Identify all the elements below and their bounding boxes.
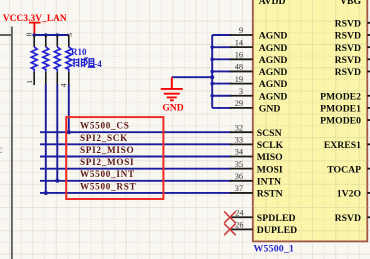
- svg-text:SPI2_MOSI: SPI2_MOSI: [80, 157, 134, 167]
- wire net SPI2_MOSI: [40, 168, 231, 170]
- pin 37 RSTN: [230, 184, 253, 193]
- svg-text:AVDD: AVDD: [259, 0, 286, 7]
- pin name RSVD (right side row): [335, 31, 370, 42]
- wire net W5500_RST: [40, 192, 231, 194]
- svg-text:PMODE1: PMODE1: [320, 104, 361, 115]
- svg-text:C: C: [0, 145, 3, 155]
- pin 34 MISO: [230, 148, 253, 157]
- ground symbol: [161, 77, 183, 100]
- svg-text:AGND: AGND: [259, 43, 288, 54]
- svg-text:AGND: AGND: [259, 31, 288, 42]
- svg-text:AGND: AGND: [259, 79, 288, 90]
- svg-text:8: 8: [25, 32, 34, 36]
- svg-text:37: 37: [235, 184, 243, 193]
- junction dots on bus: [210, 45, 214, 97]
- svg-text:RSVD: RSVD: [335, 31, 361, 42]
- pin 19 (AGND group): [230, 75, 253, 84]
- svg-text:34: 34: [235, 148, 244, 157]
- junction dot: [210, 75, 214, 79]
- wire net W5500_INT: [40, 180, 231, 182]
- svg-text:VCC3.3V_LAN: VCC3.3V_LAN: [3, 14, 67, 24]
- svg-text:9: 9: [239, 26, 243, 35]
- svg-text:48: 48: [235, 63, 243, 72]
- pin 29 (AGND group): [230, 99, 253, 108]
- pin 32 SCSN: [230, 123, 253, 132]
- svg-text:35: 35: [235, 160, 243, 169]
- resistor R10A (element 1 of pack R10): [31, 35, 37, 85]
- svg-text:SCLK: SCLK: [257, 140, 284, 151]
- resistor R10D (element 4 of pack R10): [66, 35, 72, 85]
- pin 16 (AGND group): [230, 51, 253, 60]
- pin name PMODE1 (right side row): [320, 104, 370, 115]
- svg-text:RSVD: RSVD: [335, 67, 361, 78]
- svg-text:RSTN: RSTN: [257, 189, 283, 200]
- svg-text:SCSN: SCSN: [257, 128, 282, 139]
- svg-text:14: 14: [235, 38, 244, 47]
- svg-text:GND: GND: [162, 102, 183, 113]
- wire bus to pin row 4: [212, 70, 231, 72]
- svg-text:DUPLED: DUPLED: [257, 225, 297, 236]
- pin 35 MOSI: [230, 160, 253, 169]
- highlight box (selection rectangle): [66, 117, 163, 199]
- no-connect X: [224, 224, 236, 236]
- svg-text:SPI2_SCK: SPI2_SCK: [80, 133, 128, 143]
- wire bus to pin row 6: [212, 95, 231, 97]
- svg-text:5: 5: [65, 33, 74, 37]
- junction dots on VCC rail: [32, 33, 59, 37]
- pin 3 (AGND group): [230, 87, 253, 96]
- svg-text:R10: R10: [71, 47, 87, 57]
- svg-text:EXRES1: EXRES1: [324, 140, 361, 151]
- wire net SPI2_MISO: [40, 156, 231, 158]
- wire GND to bus: [172, 76, 212, 78]
- pin name RSVD (right side row): [335, 213, 370, 224]
- svg-text:32: 32: [235, 123, 243, 132]
- wire bus to pin row 7: [212, 107, 231, 109]
- svg-text:AGND: AGND: [259, 55, 288, 66]
- svg-text:VBG: VBG: [340, 0, 361, 7]
- wire R10C down to W5500_INT: [56, 84, 58, 181]
- svg-text:AGND: AGND: [259, 67, 288, 78]
- wire R10D down to W5500_CS: [68, 84, 70, 132]
- pin 36 INTN: [230, 172, 253, 181]
- wire net SPI2_SCK: [40, 143, 231, 145]
- svg-text:W5500_1: W5500_1: [254, 244, 295, 255]
- pin name PMODE0 (right side row): [320, 116, 370, 127]
- svg-text:PMODE2: PMODE2: [320, 91, 361, 102]
- svg-text:MOSI: MOSI: [257, 164, 283, 175]
- resistor R10B (element 2 of pack R10): [43, 35, 49, 85]
- svg-text:TOCAP: TOCAP: [327, 164, 361, 175]
- svg-text:MISO: MISO: [257, 152, 283, 163]
- svg-text:29: 29: [235, 99, 243, 108]
- pin 48 (AGND group): [230, 63, 253, 72]
- svg-text:4: 4: [59, 83, 68, 87]
- svg-text:W5500_CS: W5500_CS: [80, 121, 130, 131]
- svg-text:-4: -4: [94, 59, 102, 69]
- IC W5500 body: [253, 0, 367, 241]
- svg-text:GND: GND: [259, 104, 281, 115]
- svg-text:1V2O: 1V2O: [337, 189, 362, 200]
- wire net W5500_CS: [40, 131, 231, 133]
- wire AGND bus vertical: [211, 35, 213, 108]
- no-connect X: [224, 211, 236, 223]
- pin 33 SCLK: [230, 136, 253, 145]
- svg-text:SPDLED: SPDLED: [257, 213, 296, 224]
- wire bus to pin row 5: [212, 83, 231, 85]
- wire bus to pin row 2: [212, 46, 231, 48]
- svg-text:26: 26: [235, 221, 243, 230]
- wire bus to pin row 1: [212, 34, 231, 36]
- svg-text:33: 33: [235, 136, 243, 145]
- wire VCC rail across resistor tops: [34, 34, 69, 36]
- svg-text:INTN: INTN: [257, 176, 281, 187]
- pin name EXRES1 (right side row): [324, 140, 370, 151]
- svg-text:RSVD: RSVD: [335, 213, 361, 224]
- svg-text:36: 36: [235, 172, 243, 181]
- resistor R10C (element 3 of pack R10): [54, 35, 60, 85]
- pin 26 (DUPLED) no-connect: [224, 221, 253, 236]
- svg-text:AGND: AGND: [259, 91, 288, 102]
- svg-text:16: 16: [235, 51, 243, 60]
- pin 9 (AGND group): [230, 26, 253, 35]
- pin name RSVD (right side row): [335, 67, 370, 78]
- svg-text:RSVD: RSVD: [335, 18, 361, 29]
- pin name RSVD (right side row): [335, 43, 370, 54]
- value 排阻-4 (resistor network) drawn as strokes: [73, 58, 96, 67]
- pin 24 (SPDLED) no-connect: [224, 208, 253, 223]
- pin name PMODE2 (right side row): [320, 91, 370, 102]
- svg-text:24: 24: [235, 208, 244, 217]
- wire (gray partial symbol at left edge): [0, 27, 12, 259]
- svg-text:RSVD: RSVD: [335, 55, 361, 66]
- power port VCC3.3V_LAN: [29, 23, 41, 35]
- pin name 1V2O (right side row): [337, 189, 370, 200]
- pin name TOCAP (right side row): [327, 164, 370, 175]
- svg-text:3: 3: [239, 87, 243, 96]
- svg-text:PMODE0: PMODE0: [320, 116, 361, 127]
- svg-text:SPI2_MISO: SPI2_MISO: [80, 145, 134, 155]
- pin name RSVD (right side row): [335, 18, 370, 29]
- wire bus to pin row 3: [212, 58, 231, 60]
- junction dots: [44, 130, 71, 195]
- wire R10B down to W5500_RST: [45, 84, 47, 193]
- svg-text:W5500_INT: W5500_INT: [80, 169, 135, 179]
- svg-text:19: 19: [235, 75, 243, 84]
- svg-text:RSVD: RSVD: [335, 43, 361, 54]
- pin name RSVD (right side row): [335, 55, 370, 66]
- svg-text:W5500_RST: W5500_RST: [80, 181, 136, 191]
- pin 14 (AGND group): [230, 38, 253, 47]
- svg-text:1: 1: [25, 80, 34, 84]
